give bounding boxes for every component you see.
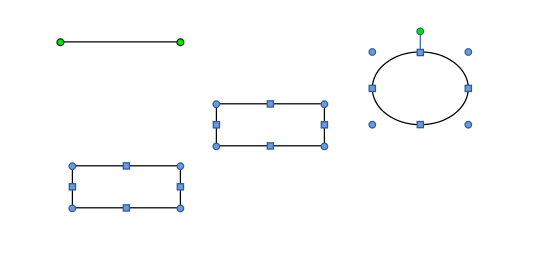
rectangle R1 (middle): [216, 104, 324, 146]
R1 right-mid handle: [321, 122, 327, 128]
R2 top-left corner handle: [69, 163, 76, 170]
line L1: [60, 41, 180, 43]
R2 top-mid handle: [123, 163, 129, 169]
R1 bottom-right corner handle: [321, 143, 328, 150]
line L1 right endpoint handle: [177, 39, 184, 46]
E1 top-left corner handle: [369, 49, 376, 56]
R1 top-mid handle: [267, 101, 273, 107]
R1 left-mid handle: [213, 122, 219, 128]
E1 left-mid handle: [369, 85, 375, 91]
R2 bottom-right corner handle: [177, 205, 184, 212]
E1 bottom-right corner handle: [465, 121, 472, 128]
E1 bottom-left corner handle: [369, 121, 376, 128]
ellipse E1: [372, 52, 468, 125]
R2 left-mid handle: [69, 184, 75, 190]
E1 bottom-mid handle: [417, 122, 423, 128]
line L1 left endpoint handle: [57, 39, 64, 46]
E1 rotation handle: [417, 28, 424, 35]
E1 right-mid handle: [465, 85, 471, 91]
rectangle R2 (bottom-left): [72, 166, 180, 208]
R2 bottom-left corner handle: [69, 205, 76, 212]
R1 top-left corner handle: [213, 101, 220, 108]
E1 top-mid handle: [417, 49, 423, 55]
R2 bottom-mid handle: [123, 205, 129, 211]
R1 bottom-mid handle: [267, 143, 273, 149]
E1 rotation stem: [419, 35, 421, 50]
R1 bottom-left corner handle: [213, 143, 220, 150]
R1 top-right corner handle: [321, 101, 328, 108]
E1 top-right corner handle: [465, 49, 472, 56]
R2 right-mid handle: [177, 184, 183, 190]
R2 top-right corner handle: [177, 163, 184, 170]
